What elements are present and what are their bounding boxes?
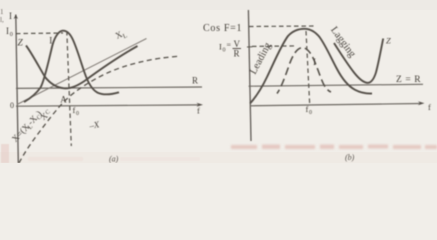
rotated label X=(XL-XC) [10,109,45,146]
axis tick at V/R level [247,46,253,48]
-X label [87,119,100,131]
Z curve (b) [334,39,383,83]
svg-text:(a): (a) [109,155,119,164]
svg-text:Z = R: Z = R [396,75,421,85]
svg-text:l,: l, [0,16,4,24]
svg-text:I: I [49,36,52,46]
svg-text:0: 0 [223,48,226,54]
svg-text:0: 0 [76,111,79,117]
dashed CosF level line [249,25,314,28]
dashed vertical at f0 (b) [306,31,310,105]
Z=R line [249,84,423,86]
svg-text:I: I [6,26,9,36]
y-axis (a) with up arrow [16,15,18,164]
x-axis (b) [250,104,421,106]
svg-text:1: 1 [0,8,4,16]
R line (a) [16,87,202,88]
Leading rotated label [248,40,274,76]
svg-text:(b): (b) [345,153,355,162]
y-axis (b) [248,10,251,141]
I bell curve (a) [24,31,119,102]
dashed vertical at f0 (a) [67,31,72,146]
outer bell curve (b) [250,29,372,104]
svg-text:0: 0 [10,31,13,38]
svg-text:f: f [428,102,431,112]
svg-text:V: V [234,39,241,49]
svg-text:Z: Z [18,39,24,49]
svg-text:Cos F=1: Cos F=1 [203,23,242,34]
svg-text:0: 0 [309,110,312,116]
Lagging rotated label [328,25,358,60]
svg-text:R: R [234,49,240,59]
dashed I0 level line [16,32,63,35]
x-axis (a) with right arrow [16,105,200,106]
inner dashed bell curve I [277,48,331,94]
dashed V/R level line [252,45,296,48]
svg-text:0: 0 [10,101,14,110]
cut-off marks at left edge [0,8,4,24]
dashed X=(XL-XC) curve [19,56,178,163]
svg-text:R: R [192,76,198,86]
svg-text:=: = [227,41,232,50]
X_L line [17,39,147,105]
Z curve (a): descends, min near R line, rises [26,46,138,89]
svg-text:A: A [60,95,67,105]
svg-text:I: I [9,11,12,21]
X_L label [114,27,129,43]
svg-text:I: I [313,57,316,67]
svg-text:Z: Z [386,36,391,46]
svg-text:f: f [197,106,200,116]
rotated label X_C [38,108,52,122]
faint pink print-through row bottom right [231,145,437,150]
paper background [0,0,437,163]
